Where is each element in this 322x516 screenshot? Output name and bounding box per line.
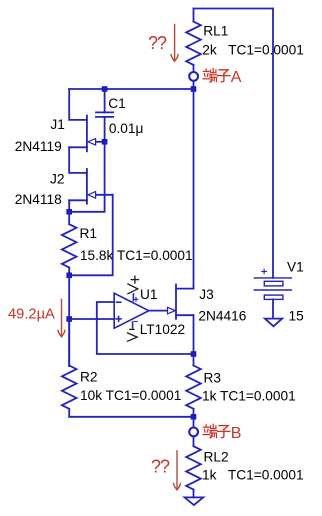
- wire op-amp output to J3 gate: [149, 310, 170, 312]
- op-amp V- pin minus mark: [134, 321, 137, 323]
- resistor R1: [62, 212, 77, 275]
- svg-text:2N4416: 2N4416: [198, 308, 246, 323]
- svg-text:B: B: [231, 425, 242, 442]
- op-amp U1: [114, 293, 149, 328]
- battery plus mark: [262, 269, 267, 274]
- svg-text:J3: J3: [199, 287, 214, 302]
- transistor J3: [168, 285, 194, 319]
- svg-text:2N4118: 2N4118: [15, 192, 62, 207]
- junction R1 bottom: [66, 273, 72, 279]
- junction feedback / R3 top: [191, 351, 197, 357]
- wire main left vertical: [68, 275, 70, 366]
- svg-text:RL1: RL1: [203, 23, 228, 38]
- terminal A port circle: [189, 72, 198, 81]
- junction op-amp plus input: [66, 316, 72, 322]
- svg-text:1k TC1=0.0001: 1k TC1=0.0001: [202, 388, 296, 403]
- svg-text:10k TC1=0.0001: 10k TC1=0.0001: [80, 388, 181, 403]
- ground bottom: [185, 497, 204, 505]
- resistor R2: [62, 319, 77, 417]
- wire bottom horizontal node B: [69, 416, 193, 418]
- op-amp V- pin label: [128, 329, 138, 341]
- svg-text:J1: J1: [50, 117, 64, 132]
- svg-text:U1: U1: [140, 287, 158, 302]
- wire above terminal B circle: [193, 417, 195, 427]
- wire node A vertical to J3 drain: [193, 89, 195, 289]
- svg-text:J2: J2: [50, 172, 64, 187]
- wire right vertical: [272, 9, 274, 278]
- junction C1 bottom / J1 gate: [102, 139, 108, 145]
- wire top horizontal: [194, 8, 274, 10]
- svg-text:15: 15: [289, 309, 305, 324]
- junction node B: [191, 414, 197, 420]
- op-amp V+ pin label: [128, 276, 139, 294]
- svg-text:49.2µA: 49.2µA: [8, 307, 55, 323]
- wire node A horizontal: [69, 88, 193, 90]
- junction R1 top: [66, 209, 72, 215]
- capacitor C1: [96, 89, 113, 142]
- red current arrow top: [171, 25, 178, 62]
- wire minus input feedback: [97, 302, 194, 354]
- label terminal A (tanshi A): [203, 69, 242, 87]
- resistor R3: [186, 354, 201, 417]
- transistor J2 (mirrored njf): [69, 169, 113, 204]
- svg-text:R2: R2: [80, 370, 98, 385]
- red current arrow middle: [58, 299, 65, 336]
- svg-text:RL2: RL2: [204, 449, 229, 464]
- svg-text:R1: R1: [80, 226, 98, 241]
- battery V1: [254, 278, 291, 319]
- junction C1 top: [102, 86, 108, 92]
- svg-text:V1: V1: [287, 260, 304, 275]
- wire J1 gate down to J2 source row: [69, 142, 104, 212]
- red current arrow bottom: [174, 451, 181, 490]
- svg-text:2k TC1=0.0001: 2k TC1=0.0001: [202, 43, 304, 58]
- wire J3 source down: [193, 315, 195, 354]
- svg-text:A: A: [231, 69, 242, 86]
- svg-text:0.01μ: 0.01μ: [109, 121, 144, 136]
- wire left drop to J1 drain: [69, 89, 87, 120]
- ground battery: [265, 319, 282, 327]
- svg-text:1k TC1=0.0001: 1k TC1=0.0001: [202, 467, 304, 482]
- wire J2 gate down to R1 bottom: [69, 195, 113, 275]
- wire below terminal A circle: [193, 82, 195, 89]
- resistor RL1: [186, 9, 201, 71]
- label terminal B (tanshi B): [203, 424, 241, 442]
- wire plus input: [69, 318, 114, 320]
- svg-text:??: ??: [151, 456, 170, 476]
- svg-text:15.8k TC1=0.0001: 15.8k TC1=0.0001: [80, 248, 193, 263]
- resistor RL2: [186, 437, 201, 497]
- svg-text:2N4119: 2N4119: [15, 139, 62, 154]
- svg-text:??: ??: [148, 33, 167, 53]
- svg-text:C1: C1: [108, 96, 126, 111]
- wire J1 source to J2 drain: [69, 147, 87, 173]
- op-amp V+ pin plus mark: [134, 298, 138, 302]
- svg-text:LT1022: LT1022: [140, 322, 185, 337]
- svg-text:R3: R3: [204, 370, 222, 385]
- wire J2 source down: [68, 200, 70, 212]
- node A junction: [191, 86, 197, 92]
- terminal B port circle: [189, 428, 198, 437]
- transistor J1 (mirrored njf): [69, 116, 104, 152]
